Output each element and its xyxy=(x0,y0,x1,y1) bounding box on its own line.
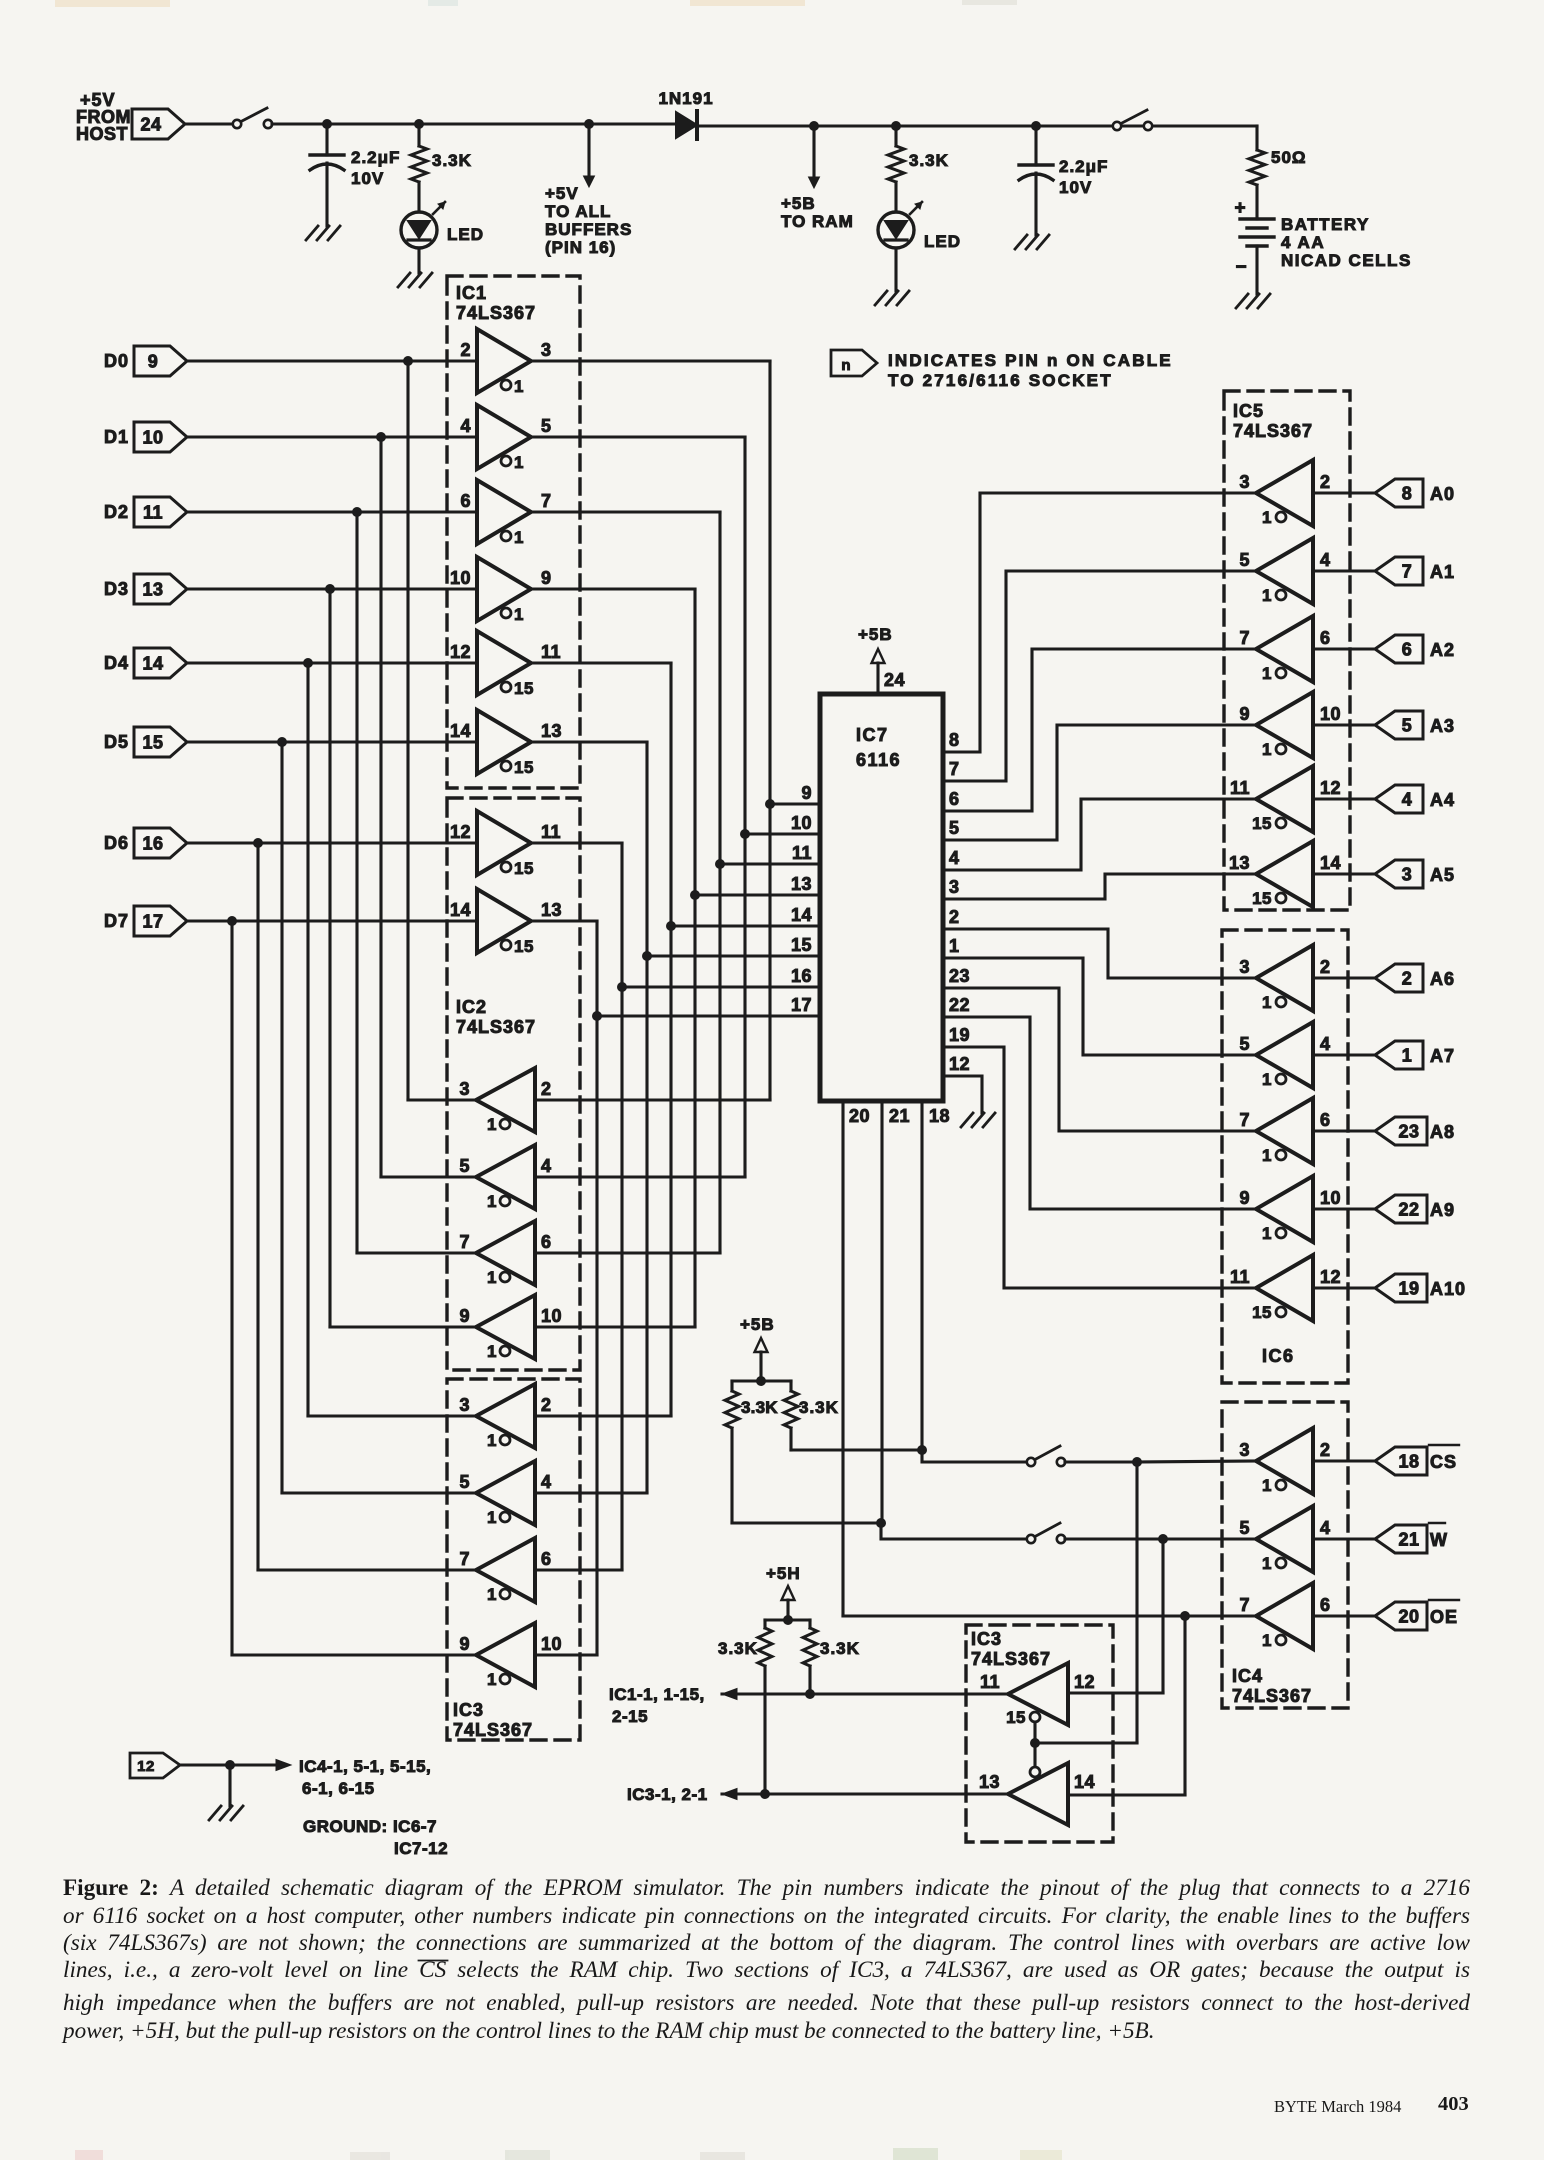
wire D6 readback bus xyxy=(258,843,476,1570)
LED D2 (host power) xyxy=(401,202,484,248)
wire A8 buffer to connector xyxy=(1313,1129,1375,1132)
svg-text:1: 1 xyxy=(1262,586,1272,605)
svg-text:2: 2 xyxy=(1402,969,1413,989)
wire IC7 pin 7 to address buffer xyxy=(944,571,1256,781)
svg-text:3: 3 xyxy=(1239,957,1250,977)
wire D1 buffer output to IC7 xyxy=(531,437,745,1177)
connector D4 pin 14 xyxy=(134,648,187,678)
wire readback input D1 xyxy=(535,1175,745,1178)
buffer IC5 pins 3-2 (A0) xyxy=(1239,460,1330,526)
node D0 branch xyxy=(403,356,413,366)
svg-text:12: 12 xyxy=(1074,1672,1095,1692)
svg-text:3: 3 xyxy=(459,1079,470,1099)
svg-text:+: + xyxy=(1234,198,1245,219)
connector A0 pin 8 xyxy=(1375,479,1423,507)
buffer IC6 pins 7-6 (A8) xyxy=(1239,1098,1330,1164)
svg-text:CS: CS xyxy=(1430,1452,1457,1472)
svg-text:1: 1 xyxy=(1402,1046,1413,1066)
svg-text:74LS367: 74LS367 xyxy=(456,1017,536,1037)
label CS (active low) xyxy=(1429,1445,1459,1472)
wire D0 input xyxy=(187,359,477,362)
node W to OR gate xyxy=(1158,1534,1168,1544)
wire +5V to buffers arrow xyxy=(584,124,595,187)
svg-text:1: 1 xyxy=(487,1431,497,1450)
svg-text:1: 1 xyxy=(487,1585,497,1604)
node CS to OR gate xyxy=(1132,1457,1142,1467)
svg-text:+5B: +5B xyxy=(781,194,816,213)
svg-text:16: 16 xyxy=(142,834,163,854)
switch S3 (CS) xyxy=(1027,1446,1065,1466)
svg-text:+5B: +5B xyxy=(858,625,893,644)
wire D2 input xyxy=(187,510,477,513)
wire CS to IC3 enable xyxy=(1035,1462,1137,1743)
wire D7 input xyxy=(187,919,477,922)
connector A5 pin 3 xyxy=(1375,860,1423,888)
svg-text:3: 3 xyxy=(1239,472,1250,492)
svg-text:11: 11 xyxy=(792,843,812,863)
wire readback input D2 xyxy=(535,1251,720,1254)
svg-text:12: 12 xyxy=(949,1054,970,1074)
enable bubble IC2 pin 1 xyxy=(487,1115,510,1134)
svg-text:4: 4 xyxy=(1320,1034,1331,1054)
wire readback input D4 xyxy=(535,1414,671,1417)
svg-text:13: 13 xyxy=(791,874,812,894)
svg-text:14: 14 xyxy=(450,900,471,920)
label IC3-1 2-1 xyxy=(627,1785,708,1804)
IC7 pin 21 stub xyxy=(882,1101,910,1523)
node D7 branch xyxy=(227,916,237,926)
svg-text:2: 2 xyxy=(1320,472,1331,492)
svg-text:5: 5 xyxy=(541,416,552,436)
svg-text:D2: D2 xyxy=(104,502,129,522)
svg-text:13: 13 xyxy=(541,721,562,741)
svg-text:16: 16 xyxy=(791,966,812,986)
svg-text:3.3K: 3.3K xyxy=(909,151,949,170)
svg-text:4: 4 xyxy=(541,1472,552,1492)
enable bubble IC5 pin 1 (A0) xyxy=(1262,508,1286,527)
svg-text:1: 1 xyxy=(1262,1224,1272,1243)
svg-text:13: 13 xyxy=(979,1772,1000,1792)
svg-text:10: 10 xyxy=(1320,704,1341,724)
svg-text:1: 1 xyxy=(949,936,960,956)
svg-text:IC4-1, 5-1, 5-15,: IC4-1, 5-1, 5-15, xyxy=(299,1757,431,1776)
wire W to IC3 pin 12 xyxy=(1068,1539,1163,1693)
connector D6 pin 16 xyxy=(134,828,187,858)
connector D1 pin 10 xyxy=(134,422,187,452)
enable bubble IC1 pin 15 xyxy=(501,758,534,777)
svg-text:1: 1 xyxy=(487,1342,497,1361)
buffer IC3 pins 7-6 (readback D6) xyxy=(459,1538,551,1602)
svg-text:3.3K: 3.3K xyxy=(432,151,472,170)
enable bubble IC3 pin 1 xyxy=(487,1508,510,1527)
svg-text:LED: LED xyxy=(447,225,484,244)
svg-text:23: 23 xyxy=(1398,1122,1419,1142)
enable bubble IC2 pin 15 xyxy=(501,937,534,956)
node IC7 pin 13 xyxy=(690,890,700,900)
svg-text:74LS367: 74LS367 xyxy=(971,1649,1051,1669)
svg-text:11: 11 xyxy=(1230,1267,1250,1287)
svg-text:15: 15 xyxy=(791,935,812,955)
svg-text:19: 19 xyxy=(949,1025,970,1045)
connector pin 24 (+5V from host) xyxy=(132,109,185,139)
svg-text:5: 5 xyxy=(459,1472,470,1492)
svg-text:12: 12 xyxy=(450,642,471,662)
node D4 branch xyxy=(303,658,313,668)
enable bubble IC4 pin 1 (OE) xyxy=(1262,1631,1286,1650)
svg-text:GROUND: IC6-7: GROUND: IC6-7 xyxy=(303,1817,437,1836)
IC7 pin 18 stub xyxy=(922,1101,950,1450)
buffer IC3 pins 3-2 (readback D4) xyxy=(459,1384,551,1448)
label IC3 74LS367 left xyxy=(453,1700,533,1740)
svg-text:15: 15 xyxy=(1006,1708,1026,1727)
enable bubble IC1 pin 1 xyxy=(501,377,524,396)
svg-text:11: 11 xyxy=(143,503,163,523)
svg-text:1: 1 xyxy=(1262,1631,1272,1650)
svg-text:BUFFERS: BUFFERS xyxy=(545,220,632,239)
wire D0 buffer output to IC7 xyxy=(531,361,770,1100)
svg-text:6: 6 xyxy=(541,1549,552,1569)
svg-text:2.2μF: 2.2μF xyxy=(351,148,400,167)
svg-text:1N191: 1N191 xyxy=(658,89,713,108)
buffer IC5 pins 13-14 (A5) xyxy=(1229,841,1341,907)
IC7 pin 6 label xyxy=(949,789,960,809)
svg-text:A4: A4 xyxy=(1430,790,1455,810)
wire IC7 pin 3 to address buffer xyxy=(944,874,1256,899)
enable bubble IC2 pin 1 xyxy=(487,1192,510,1211)
IC box IC4 xyxy=(1222,1402,1348,1708)
label D4 xyxy=(104,653,129,673)
enable bubble IC3 pin 1 xyxy=(487,1585,510,1604)
svg-text:17: 17 xyxy=(791,995,812,1015)
svg-text:3.3K: 3.3K xyxy=(820,1639,860,1658)
node IC7 pin 14 xyxy=(666,921,676,931)
ground pin 12 xyxy=(209,1806,243,1820)
LED D3 (battery power) xyxy=(878,202,961,251)
svg-text:IC7-12: IC7-12 xyxy=(394,1839,448,1858)
svg-text:74LS367: 74LS367 xyxy=(453,1720,533,1740)
resistor R2 3.3K xyxy=(888,126,949,212)
node D3 branch xyxy=(325,584,335,594)
wire OE to IC3 pin 14 xyxy=(1068,1616,1185,1795)
label D3 xyxy=(104,579,129,599)
svg-text:19: 19 xyxy=(1398,1279,1419,1299)
label A4 xyxy=(1430,790,1455,810)
IC box IC3 left xyxy=(447,1379,580,1740)
wire IC7 pin 8 to address buffer xyxy=(944,493,1256,752)
svg-text:A7: A7 xyxy=(1430,1046,1455,1066)
svg-text:6: 6 xyxy=(460,491,471,511)
node D5 branch xyxy=(277,737,287,747)
svg-text:12: 12 xyxy=(1320,778,1341,798)
svg-text:5: 5 xyxy=(949,818,960,838)
svg-text:18: 18 xyxy=(1398,1452,1419,1472)
svg-text:15: 15 xyxy=(1252,889,1272,908)
wire LED to ground xyxy=(417,248,420,273)
label A9 xyxy=(1430,1200,1455,1220)
svg-text:7: 7 xyxy=(1239,1110,1250,1130)
buffer IC4 pins 7-6 (OE) xyxy=(1239,1583,1330,1649)
wire IC7 pin 15 stub xyxy=(647,935,819,956)
wire OE buffer to connector xyxy=(1313,1614,1375,1617)
label OE (active low) xyxy=(1429,1600,1459,1627)
svg-text:20: 20 xyxy=(1398,1607,1419,1627)
connector A10 pin 19 xyxy=(1375,1274,1427,1302)
label D6 xyxy=(104,833,129,853)
svg-text:IC6: IC6 xyxy=(1262,1346,1295,1366)
buffer IC6 pins 9-10 (A9) xyxy=(1239,1176,1341,1242)
svg-text:10: 10 xyxy=(450,568,471,588)
svg-text:D6: D6 xyxy=(104,833,129,853)
svg-text:+5B: +5B xyxy=(740,1315,775,1334)
wire enable line IC3-1 xyxy=(722,1789,1008,1800)
svg-text:6-1, 6-15: 6-1, 6-15 xyxy=(302,1779,375,1798)
node pin 12 ground xyxy=(225,1760,235,1770)
label IC3 74LS367 right xyxy=(971,1629,1051,1669)
IC box IC5 xyxy=(1224,391,1350,910)
svg-text:7: 7 xyxy=(459,1232,470,1252)
svg-text:7: 7 xyxy=(1239,1595,1250,1615)
resistor R4 3.3K (CS pullup) xyxy=(784,1381,839,1450)
buffer IC6 pins 5-4 (A7) xyxy=(1239,1022,1330,1088)
svg-text:50Ω: 50Ω xyxy=(1271,148,1307,167)
svg-text:1: 1 xyxy=(1262,993,1272,1012)
svg-text:1: 1 xyxy=(1262,740,1272,759)
svg-text:A3: A3 xyxy=(1430,716,1455,736)
wire readback input D5 xyxy=(535,1491,647,1494)
wire A9 buffer to connector xyxy=(1313,1207,1375,1210)
svg-text:2: 2 xyxy=(541,1395,552,1415)
buffer IC4 pins 5-4 (W) xyxy=(1239,1506,1330,1572)
svg-text:D4: D4 xyxy=(104,653,129,673)
node +5B tap xyxy=(809,121,819,131)
svg-text:A6: A6 xyxy=(1430,969,1455,989)
svg-text:IC3-1, 2-1: IC3-1, 2-1 xyxy=(627,1785,708,1804)
wire pin 12 ground line xyxy=(180,1760,291,1771)
wire A10 buffer to connector xyxy=(1313,1286,1375,1289)
svg-text:15: 15 xyxy=(514,937,534,956)
svg-text:22: 22 xyxy=(949,995,970,1015)
legend text xyxy=(888,351,1173,390)
wire IC7 pin 4 to address buffer xyxy=(944,799,1256,870)
svg-text:7: 7 xyxy=(949,759,960,779)
svg-text:6: 6 xyxy=(1320,1595,1331,1615)
svg-text:9: 9 xyxy=(541,568,552,588)
svg-text:9: 9 xyxy=(801,783,812,803)
wire D5 input xyxy=(187,740,477,743)
ground battery xyxy=(1236,294,1270,308)
node IC7 pin 10 xyxy=(740,829,750,839)
svg-text:1: 1 xyxy=(487,1268,497,1287)
svg-text:5: 5 xyxy=(1239,1034,1250,1054)
svg-text:BATTERY: BATTERY xyxy=(1281,215,1370,234)
power +5B to IC7 pin 24 xyxy=(858,625,905,694)
connector OE pin 20 xyxy=(1375,1602,1427,1630)
IC7 pin 23 label xyxy=(949,966,970,986)
node IC3-1 pullup tap xyxy=(760,1789,770,1799)
node D2 branch xyxy=(352,507,362,517)
node D1 branch xyxy=(376,432,386,442)
svg-text:20: 20 xyxy=(849,1106,870,1126)
svg-text:15: 15 xyxy=(514,679,534,698)
connector D7 pin 17 xyxy=(134,906,187,936)
buffer IC6 pins 11-12 (A10) xyxy=(1230,1255,1341,1321)
wire D7 readback bus xyxy=(232,921,476,1655)
svg-text:10: 10 xyxy=(142,428,163,448)
node IC7 pin 17 xyxy=(592,1011,602,1021)
svg-text:2: 2 xyxy=(1320,1440,1331,1460)
wire A7 buffer to connector xyxy=(1313,1053,1375,1056)
label IC6 xyxy=(1262,1346,1295,1366)
svg-text:14: 14 xyxy=(1320,853,1341,873)
wire enable tie xyxy=(1033,1722,1036,1765)
enable bubble IC5 pin 1 (A2) xyxy=(1262,664,1286,683)
resistor R6 3.3K (IC1-1 pullup) xyxy=(803,1620,860,1694)
label IC4 74LS367 xyxy=(1232,1666,1312,1706)
svg-text:13: 13 xyxy=(1229,853,1250,873)
svg-text:1: 1 xyxy=(514,528,524,547)
node IC1-1 pullup tap xyxy=(805,1689,815,1699)
label D7 xyxy=(104,911,129,931)
wire IC7 pin 9 stub xyxy=(770,783,819,804)
svg-text:4 AA: 4 AA xyxy=(1281,233,1325,252)
wire IC7 pin 12 to ground xyxy=(944,1076,982,1113)
wire IC7 pin 17 stub xyxy=(597,995,819,1016)
label A5 xyxy=(1430,865,1455,885)
node C1 tap xyxy=(322,119,332,129)
wire A6 buffer to connector xyxy=(1313,976,1375,979)
label D2 xyxy=(104,502,129,522)
svg-text:1: 1 xyxy=(1262,1554,1272,1573)
svg-text:15: 15 xyxy=(142,733,163,753)
wire A4 buffer to connector xyxy=(1313,797,1375,800)
switch S2 (battery) xyxy=(1113,110,1152,130)
label A0 xyxy=(1430,484,1455,504)
wire readback input D7 xyxy=(535,1653,597,1656)
svg-text:74LS367: 74LS367 xyxy=(1232,1686,1312,1706)
svg-text:A5: A5 xyxy=(1430,865,1455,885)
svg-text:21: 21 xyxy=(1398,1530,1419,1550)
svg-text:3.3K: 3.3K xyxy=(718,1639,758,1658)
IC box IC1 xyxy=(447,276,580,788)
svg-text:12: 12 xyxy=(137,1758,155,1775)
buffer IC3 pins 9-10 (readback D7) xyxy=(459,1623,562,1687)
enable bubble IC4 pin 1 (W) xyxy=(1262,1554,1286,1573)
svg-text:n: n xyxy=(841,357,850,374)
svg-text:9: 9 xyxy=(459,1306,470,1326)
wire rail corner to 50 ohm xyxy=(1255,126,1258,150)
svg-text:A9: A9 xyxy=(1430,1200,1455,1220)
caption CS overbar xyxy=(419,1960,448,1962)
power label +5V FROM HOST xyxy=(76,90,131,144)
node +5H pullup xyxy=(783,1615,793,1625)
svg-text:+5V: +5V xyxy=(545,184,579,203)
label A2 xyxy=(1430,640,1455,660)
buffer IC1 pins 12-11 (D4) xyxy=(450,631,561,695)
svg-text:6: 6 xyxy=(1402,640,1413,660)
enable bubble IC5 pin 1 (A3) xyxy=(1262,740,1286,759)
label D0 xyxy=(104,351,129,371)
svg-text:+5H: +5H xyxy=(766,1564,801,1583)
wire readback input D3 xyxy=(535,1325,695,1328)
wire D1 input xyxy=(187,435,477,438)
IC box IC3 right xyxy=(966,1625,1113,1842)
node CS pullup junction xyxy=(917,1445,927,1455)
buffer IC5 pins 7-6 (A2) xyxy=(1239,616,1330,682)
wire D6 input xyxy=(187,841,477,844)
wire W net right xyxy=(1065,1537,1259,1540)
svg-text:21: 21 xyxy=(889,1106,910,1126)
battery 4 AA nicad xyxy=(1234,198,1411,294)
wire rail diode to battery corner xyxy=(697,124,1257,127)
svg-text:10: 10 xyxy=(541,1634,562,1654)
svg-text:12: 12 xyxy=(450,822,471,842)
node IC7 pin 16 xyxy=(617,982,627,992)
IC7 pin 8 label xyxy=(949,730,960,750)
svg-text:9: 9 xyxy=(1239,704,1250,724)
svg-text:9: 9 xyxy=(1239,1188,1250,1208)
svg-text:(PIN 16): (PIN 16) xyxy=(545,238,616,257)
svg-text:4: 4 xyxy=(1402,790,1413,810)
wire A3 buffer to connector xyxy=(1313,723,1375,726)
svg-text:8: 8 xyxy=(1402,484,1413,504)
wire IC7 pin 11 stub xyxy=(720,843,819,864)
svg-text:11: 11 xyxy=(541,642,561,662)
capacitor C2 2.2uF 10V xyxy=(1019,126,1108,235)
wire enable line IC1-1 xyxy=(722,1689,1008,1700)
svg-text:OE: OE xyxy=(1430,1607,1458,1627)
wire IC7 pin 16 stub xyxy=(622,966,819,987)
wire CS net right xyxy=(1065,1461,1259,1462)
buffer IC1 pins 14-13 (D5) xyxy=(450,710,562,774)
svg-text:10: 10 xyxy=(791,813,812,833)
wire W buffer to connector xyxy=(1313,1537,1375,1540)
ground C2 xyxy=(1015,235,1049,249)
label A6 xyxy=(1430,969,1455,989)
wire IC7 pin 6 to address buffer xyxy=(944,649,1256,811)
svg-text:IC2: IC2 xyxy=(456,997,487,1017)
switch S1 (host power) xyxy=(233,108,272,128)
buffer IC5 pins 11-12 (A4) xyxy=(1230,766,1341,832)
svg-text:23: 23 xyxy=(949,966,970,986)
wire D1 readback bus xyxy=(381,437,476,1177)
IC7 pin 7 label xyxy=(949,759,960,779)
buffer IC2 pins 3-2 (readback D0) xyxy=(459,1068,551,1132)
enable bubble IC4 pin 1 (CS) xyxy=(1262,1476,1286,1495)
connector A3 pin 5 xyxy=(1375,711,1423,739)
svg-text:13: 13 xyxy=(142,580,163,600)
svg-text:11: 11 xyxy=(541,822,561,842)
wire A2 buffer to connector xyxy=(1313,647,1375,650)
svg-text:3: 3 xyxy=(1239,1440,1250,1460)
svg-text:IC5: IC5 xyxy=(1233,401,1264,421)
svg-text:11: 11 xyxy=(1230,778,1250,798)
diode 1N191 xyxy=(658,89,713,139)
wire D5 readback bus xyxy=(282,742,476,1493)
svg-text:6: 6 xyxy=(1320,1110,1331,1130)
wire pin 12 to ground xyxy=(228,1765,231,1806)
svg-text:5: 5 xyxy=(1239,1518,1250,1538)
svg-text:D1: D1 xyxy=(104,427,129,447)
svg-text:1: 1 xyxy=(487,1670,497,1689)
svg-text:−: − xyxy=(1235,257,1246,278)
svg-text:1: 1 xyxy=(487,1115,497,1134)
label IC1-1 1-15 2-15 xyxy=(609,1685,705,1726)
svg-text:3.3K: 3.3K xyxy=(741,1398,778,1417)
svg-text:HOST: HOST xyxy=(76,124,128,144)
svg-text:11: 11 xyxy=(980,1672,1000,1692)
svg-text:A10: A10 xyxy=(1430,1279,1466,1299)
enable bubble IC6 pin 1 (A9) xyxy=(1262,1224,1286,1243)
